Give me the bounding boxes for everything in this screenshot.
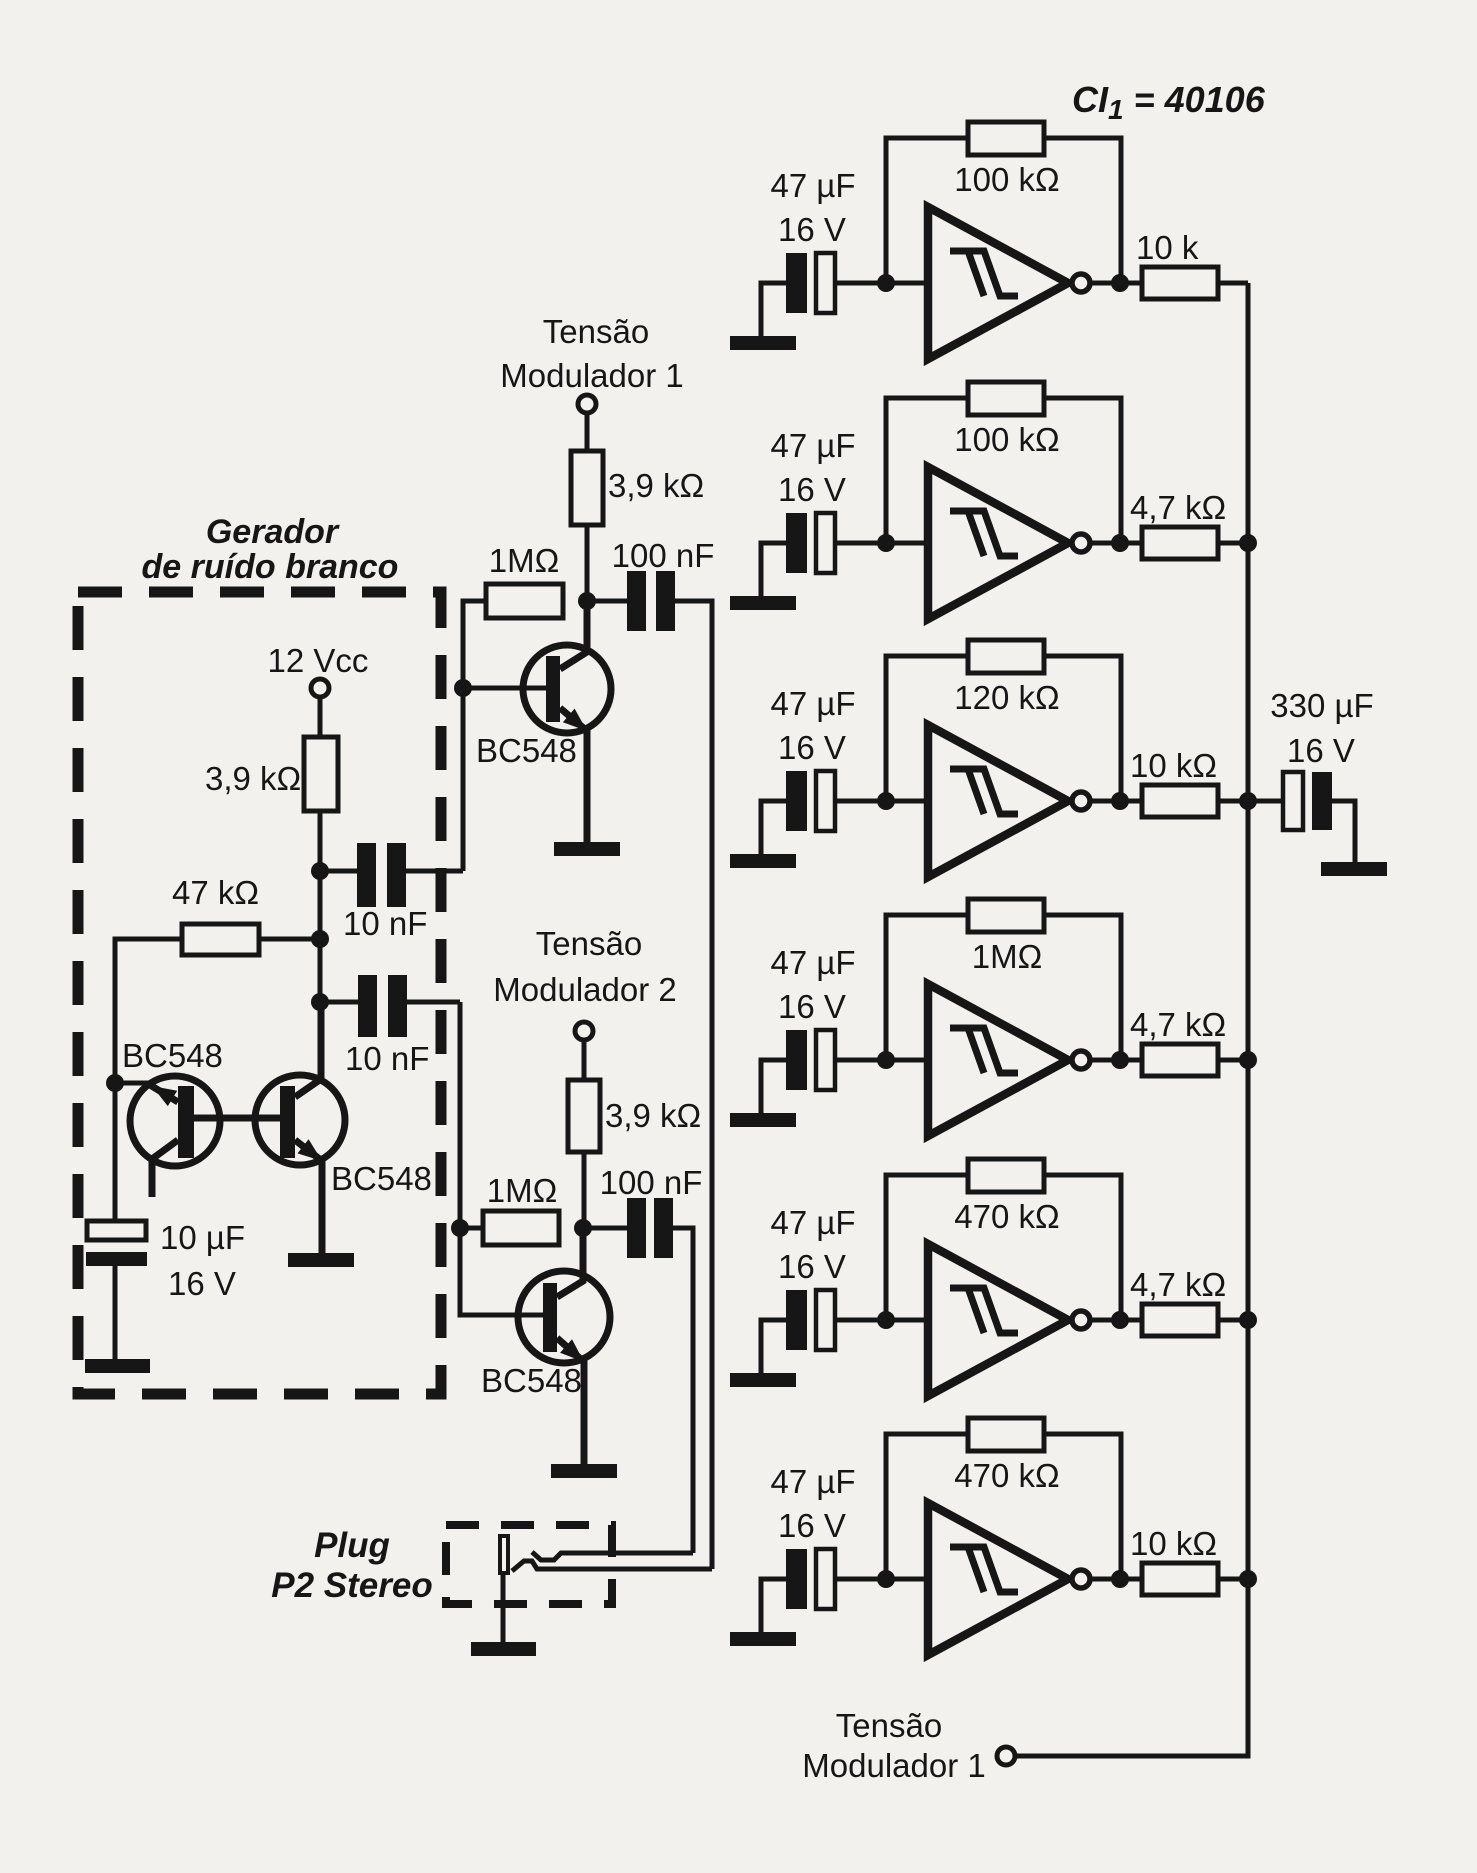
wire feedback left stage 1 (886, 138, 968, 283)
node input stage 6 (877, 1570, 895, 1588)
node base Q4 (451, 1219, 469, 1237)
value label C12 10 µF 16 V (160, 1219, 245, 1302)
wire feedback right stage 3 (1044, 656, 1121, 801)
output bubble U1c (1072, 792, 1090, 810)
capacitor C11 10 nF (358, 975, 407, 1037)
wire R12 right to node D (259, 937, 320, 942)
svg-text:16 V: 16 V (778, 1248, 846, 1285)
wire terminal to R9 (582, 1040, 587, 1080)
node B collector modulator 2 (574, 1219, 592, 1237)
resistor Rf6 feedback 470 kΩ (968, 1418, 1044, 1451)
value label R9 3,9 kΩ (605, 1097, 701, 1134)
svg-text:100 nF: 100 nF (600, 1164, 703, 1201)
ground under C12 (85, 1359, 150, 1373)
svg-text:16 V: 16 V (168, 1265, 236, 1302)
svg-text:120 kΩ: 120 kΩ (954, 679, 1059, 716)
capacitor C5 47 µF input cap (786, 1290, 835, 1350)
ground under C2 (730, 596, 796, 610)
svg-text:10 kΩ: 10 kΩ (1130, 747, 1217, 784)
wire C11 left to node F (320, 1000, 358, 1005)
value label C11 10 nF (345, 1040, 429, 1077)
wire feedback left stage 6 (886, 1434, 968, 1579)
svg-text:4,7 kΩ: 4,7 kΩ (1130, 1006, 1226, 1043)
wire base Q1 to base Q2 (194, 1115, 280, 1122)
value label R11 3,9 kΩ (205, 760, 301, 797)
node F 10nF2 junction (311, 993, 329, 1011)
plug tip contact lower (512, 1561, 712, 1571)
value label Ro3 10 kΩ (1130, 747, 1217, 784)
wire C8 to plug ring 1 (675, 601, 712, 1569)
wire Ro6 to mix bus (1218, 1577, 1248, 1582)
svg-text:4,7 kΩ: 4,7 kΩ (1130, 1266, 1226, 1303)
value label C7 330 µF 16 V (1270, 687, 1373, 769)
resistor R10 1MΩ (483, 1211, 559, 1245)
svg-text:100 kΩ: 100 kΩ (954, 161, 1059, 198)
wire output stage 1 (1090, 281, 1142, 286)
value label Ro5 4,7 kΩ (1130, 1266, 1226, 1303)
node output stage 3 (1111, 792, 1129, 810)
node input stage 1 (877, 274, 895, 292)
svg-text:47 µF: 47 µF (770, 944, 855, 981)
capacitor C10 10 nF (357, 843, 406, 907)
svg-text:100 nF: 100 nF (612, 537, 715, 574)
resistor Rf2 feedback 100 kΩ (968, 382, 1044, 415)
svg-text:BC548: BC548 (476, 732, 577, 769)
wire plug sleeve to ground (501, 1573, 506, 1642)
resistor R12 47 kΩ (182, 924, 259, 955)
wire Ro3 to mix bus (1218, 799, 1248, 804)
ground under C4 (730, 1113, 796, 1127)
inverter U1e Schmitt trigger triangle (928, 1244, 1068, 1396)
value label Rf5 470 kΩ (954, 1198, 1059, 1235)
ground under Q2 (288, 1253, 354, 1267)
inverter U1c Schmitt trigger triangle (928, 725, 1068, 877)
value label Rf6 470 kΩ (954, 1457, 1059, 1494)
svg-text:100 kΩ: 100 kΩ (954, 421, 1059, 458)
wire C3 to inverter input (835, 799, 928, 804)
wire node C to C10 (320, 869, 357, 874)
wire R11 to node C (318, 811, 323, 1002)
wire Ro1 to mix bus (1218, 281, 1248, 286)
resistor Rf3 feedback 120 kΩ (968, 640, 1044, 673)
wire C9 to plug tip contact (673, 1228, 693, 1553)
value label C8 100 nF (612, 537, 715, 574)
resistor Ro3 output 10 kΩ (1142, 785, 1218, 817)
wire Ro5 to mix bus (1218, 1318, 1248, 1323)
label Gerador de ruído branco (142, 513, 399, 586)
transistor Q2 BC548 (255, 1002, 345, 1253)
inverter U1d Schmitt trigger triangle (928, 984, 1068, 1136)
wire feedback right stage 4 (1044, 915, 1121, 1060)
svg-text:330 µF: 330 µF (1270, 687, 1373, 724)
svg-text:Plug: Plug (314, 1526, 390, 1565)
inverter U1a Schmitt trigger triangle (928, 207, 1068, 359)
resistor Ro4 output 4,7 kΩ (1142, 1044, 1218, 1076)
hysteresis symbol inside U1d (950, 1028, 1018, 1073)
wire feedback left stage 5 (886, 1175, 968, 1320)
inverter U1f Schmitt trigger triangle (928, 1503, 1068, 1655)
resistor Ro1 output 10 k (1142, 267, 1218, 299)
svg-text:470 kΩ: 470 kΩ (954, 1198, 1059, 1235)
node E emitter Q1 (106, 1074, 124, 1092)
capacitor C8 100 nF (627, 571, 675, 631)
svg-text:10 kΩ: 10 kΩ (1130, 1525, 1217, 1562)
node output stage 1 (1111, 274, 1129, 292)
resistor Rf5 feedback 470 kΩ (968, 1159, 1044, 1192)
ground under Q3 (554, 842, 620, 856)
node mix bus stage 2 (1239, 534, 1257, 552)
value label C1 47 µF 16 V (770, 167, 855, 248)
resistor Rf1 feedback 100 kΩ (968, 122, 1044, 155)
wire feedback left stage 2 (886, 398, 968, 543)
wire C4 left plate to ground (761, 1060, 786, 1113)
hysteresis symbol inside U1e (950, 1288, 1018, 1333)
node mix bus stage 5 (1239, 1311, 1257, 1329)
value label Rf2 100 kΩ (954, 421, 1059, 458)
value label Rf3 120 kΩ (954, 679, 1059, 716)
node input stage 4 (877, 1051, 895, 1069)
svg-text:47 µF: 47 µF (770, 427, 855, 464)
wire C1 to inverter input (835, 281, 928, 286)
svg-text:BC548: BC548 (331, 1160, 432, 1197)
value label R7 3,9 kΩ (608, 467, 704, 504)
svg-text:10 k: 10 k (1136, 229, 1199, 266)
value label Ro1 10 k (1136, 229, 1199, 266)
hysteresis symbol inside U1b (950, 511, 1018, 556)
wire bus to C7 (1248, 799, 1283, 804)
svg-text:BC548: BC548 (122, 1037, 223, 1074)
svg-text:16 V: 16 V (1287, 732, 1355, 769)
value label Rf4 1MΩ (972, 938, 1043, 975)
label Q1 BC548 (122, 1037, 223, 1074)
resistor R7 3,9 kΩ (571, 451, 603, 525)
svg-text:3,9 kΩ: 3,9 kΩ (205, 760, 301, 797)
svg-text:12 Vcc: 12 Vcc (268, 642, 369, 679)
resistor Rf4 feedback 1MΩ (968, 899, 1044, 932)
wire output stage 3 (1090, 799, 1142, 804)
terminal Tensão Modulador 1 input (578, 395, 596, 413)
svg-text:16 V: 16 V (778, 471, 846, 508)
svg-text:47 µF: 47 µF (770, 1463, 855, 1500)
svg-text:P2 Stereo: P2 Stereo (271, 1566, 432, 1605)
label Tensão Modulador 1 input (500, 313, 683, 394)
node output stage 5 (1111, 1311, 1129, 1329)
svg-text:10 nF: 10 nF (343, 905, 427, 942)
svg-text:47 µF: 47 µF (770, 1204, 855, 1241)
resistor R11 3,9 kΩ (304, 737, 338, 811)
value label R12 47 kΩ (172, 874, 259, 911)
svg-text:16 V: 16 V (778, 988, 846, 1025)
output bubble U1a (1072, 274, 1090, 292)
value label C6 47 µF 16 V (770, 1463, 855, 1544)
value label C5 47 µF 16 V (770, 1204, 855, 1285)
dashed box Plug P2 Stereo (446, 1525, 612, 1604)
svg-text:47 kΩ: 47 kΩ (172, 874, 259, 911)
terminal Tensão Modulador 1 output (997, 1747, 1015, 1765)
svg-text:47 µF: 47 µF (770, 685, 855, 722)
node input stage 5 (877, 1311, 895, 1329)
capacitor C12 10 µF electrolytic (86, 1221, 147, 1266)
label Q4 BC548 (481, 1362, 582, 1399)
IC label CI1 = 40106 (1072, 79, 1266, 125)
capacitor C1 47 µF input cap (786, 253, 835, 313)
value label Rf1 100 kΩ (954, 161, 1059, 198)
node D 47k junction (311, 930, 329, 948)
svg-text:1MΩ: 1MΩ (972, 938, 1043, 975)
svg-text:10 nF: 10 nF (345, 1040, 429, 1077)
wire C2 left plate to ground (761, 543, 786, 596)
wire Ro2 to mix bus (1218, 541, 1248, 546)
svg-text:3,9 kΩ: 3,9 kΩ (608, 467, 704, 504)
svg-text:4,7 kΩ: 4,7 kΩ (1130, 489, 1226, 526)
node base Q3 (454, 679, 472, 697)
svg-text:Gerador: Gerador (206, 513, 340, 551)
output bubble U1d (1072, 1051, 1090, 1069)
wire C5 left plate to ground (761, 1320, 786, 1373)
value label Ro4 4,7 kΩ (1130, 1006, 1226, 1043)
node C (311, 862, 329, 880)
wire C7 to ground (1332, 801, 1355, 862)
terminal 12 Vcc (311, 679, 329, 697)
transistor Q3 BC548 (523, 601, 611, 842)
svg-text:CI1 = 40106: CI1 = 40106 (1072, 79, 1266, 125)
output bubble U1f (1072, 1570, 1090, 1588)
label Tensão Modulador 2 input (493, 925, 676, 1008)
wire output stage 4 (1090, 1058, 1142, 1063)
terminal Tensão Modulador 2 input (575, 1022, 593, 1040)
label Plug P2 Stereo (271, 1526, 432, 1605)
value label C10 10 nF (343, 905, 427, 942)
wire R7 to node A (585, 525, 590, 601)
wire output stage 6 (1090, 1577, 1142, 1582)
capacitor C6 47 µF input cap (786, 1549, 835, 1609)
node mix bus stage 4 (1239, 1051, 1257, 1069)
svg-text:16 V: 16 V (778, 729, 846, 766)
svg-text:Modulador 2: Modulador 2 (493, 971, 676, 1008)
wire C1 left plate to ground (761, 283, 786, 336)
ground under C3 (730, 854, 796, 868)
wire R12 left down to Q1 emitter (115, 939, 182, 1221)
value label R8 1MΩ (489, 542, 560, 579)
capacitor C9 100 nF (627, 1198, 673, 1258)
node output stage 2 (1111, 534, 1129, 552)
ground under C1 (730, 336, 796, 350)
svg-text:Modulador 1: Modulador 1 (802, 1747, 985, 1784)
svg-text:Modulador 1: Modulador 1 (500, 357, 683, 394)
node mix bus stage 3 (1239, 792, 1257, 810)
ground under C7 (1321, 862, 1387, 876)
wire terminal to R7 (585, 413, 590, 451)
value label R10 1MΩ (487, 1172, 558, 1209)
value label C9 100 nF (600, 1164, 703, 1201)
resistor R8 1MΩ (486, 584, 563, 618)
ground under plug (471, 1642, 536, 1656)
svg-text:BC548: BC548 (481, 1362, 582, 1399)
plug ring contact upper (532, 1552, 693, 1560)
ground under C5 (730, 1373, 796, 1387)
wire C3 left plate to ground (761, 801, 786, 854)
wire output stage 2 (1090, 541, 1142, 546)
node A collector modulator 1 (578, 592, 596, 610)
transistor Q4 BC548 (518, 1228, 610, 1464)
svg-text:470 kΩ: 470 kΩ (954, 1457, 1059, 1494)
wire feedback left stage 4 (886, 915, 968, 1060)
wire C11 right to modulator 2 net (407, 1000, 460, 1005)
value label C3 47 µF 16 V (770, 685, 855, 766)
label 12 Vcc (268, 642, 369, 679)
wire output stage 5 (1090, 1318, 1142, 1323)
wire C6 left plate to ground (761, 1579, 786, 1632)
wire mix bus vertical (1015, 283, 1248, 1756)
capacitor C7 330 µF output (1283, 772, 1332, 830)
svg-text:47 µF: 47 µF (770, 167, 855, 204)
hysteresis symbol inside U1c (950, 769, 1018, 814)
wire C10 to modulator 1 net (406, 869, 463, 874)
value label Ro2 4,7 kΩ (1130, 489, 1226, 526)
plug tip P2 (500, 1536, 508, 1573)
dashed box Gerador de ruído branco (78, 592, 441, 1394)
resistor R9 3,9 kΩ (568, 1080, 600, 1152)
wire C2 to inverter input (835, 541, 928, 546)
wire R8 left to base Q3 (463, 601, 546, 871)
svg-text:1MΩ: 1MΩ (487, 1172, 558, 1209)
label Q2 BC548 (331, 1160, 432, 1197)
wire feedback right stage 5 (1044, 1175, 1121, 1320)
wire C6 to inverter input (835, 1577, 928, 1582)
node mix bus stage 6 (1239, 1570, 1257, 1588)
wire C5 to inverter input (835, 1318, 928, 1323)
node output stage 4 (1111, 1051, 1129, 1069)
ground under Q4 (551, 1464, 617, 1478)
wire node B to C9 (583, 1226, 627, 1231)
svg-text:16 V: 16 V (778, 211, 846, 248)
hysteresis symbol inside U1a (950, 251, 1018, 296)
resistor Ro6 output 10 kΩ (1142, 1563, 1218, 1595)
wire C4 to inverter input (835, 1058, 928, 1063)
wire terminal to R11 (318, 697, 323, 737)
svg-text:16 V: 16 V (778, 1507, 846, 1544)
node output stage 6 (1111, 1570, 1129, 1588)
wire C12 to ground (113, 1266, 118, 1359)
svg-text:3,9 kΩ: 3,9 kΩ (605, 1097, 701, 1134)
output bubble U1e (1072, 1311, 1090, 1329)
output bubble U1b (1072, 534, 1090, 552)
wire feedback right stage 2 (1044, 398, 1121, 543)
value label C4 47 µF 16 V (770, 944, 855, 1025)
node input stage 2 (877, 534, 895, 552)
capacitor C3 47 µF input cap (786, 771, 835, 831)
svg-text:de ruído branco: de ruído branco (142, 548, 399, 586)
wire Ro4 to mix bus (1218, 1058, 1248, 1063)
value label C2 47 µF 16 V (770, 427, 855, 508)
wire R10 left to base Q4 (460, 1002, 543, 1315)
wire node A to C8 (587, 599, 627, 604)
inverter U1b Schmitt trigger triangle (928, 467, 1068, 619)
svg-text:Tensão: Tensão (836, 1707, 942, 1744)
wire feedback right stage 6 (1044, 1434, 1121, 1579)
node input stage 3 (877, 792, 895, 810)
svg-text:10 µF: 10 µF (160, 1219, 245, 1256)
resistor Ro5 output 4,7 kΩ (1142, 1304, 1218, 1336)
svg-text:Tensão: Tensão (536, 925, 642, 962)
capacitor C2 47 µF input cap (786, 513, 835, 573)
value label Ro6 10 kΩ (1130, 1525, 1217, 1562)
svg-text:Tensão: Tensão (543, 313, 649, 350)
ground under C6 (730, 1632, 796, 1646)
wire R9 to node B (582, 1152, 587, 1228)
wire feedback right stage 1 (1044, 138, 1121, 283)
label output terminal (802, 1707, 985, 1784)
svg-text:1MΩ: 1MΩ (489, 542, 560, 579)
transistor Q1 BC548 noise source (115, 1076, 220, 1197)
capacitor C4 47 µF input cap (786, 1030, 835, 1090)
resistor Ro2 output 4,7 kΩ (1142, 527, 1218, 559)
hysteresis symbol inside U1f (950, 1547, 1018, 1592)
label Q3 BC548 (476, 732, 577, 769)
wire feedback left stage 3 (886, 656, 968, 801)
